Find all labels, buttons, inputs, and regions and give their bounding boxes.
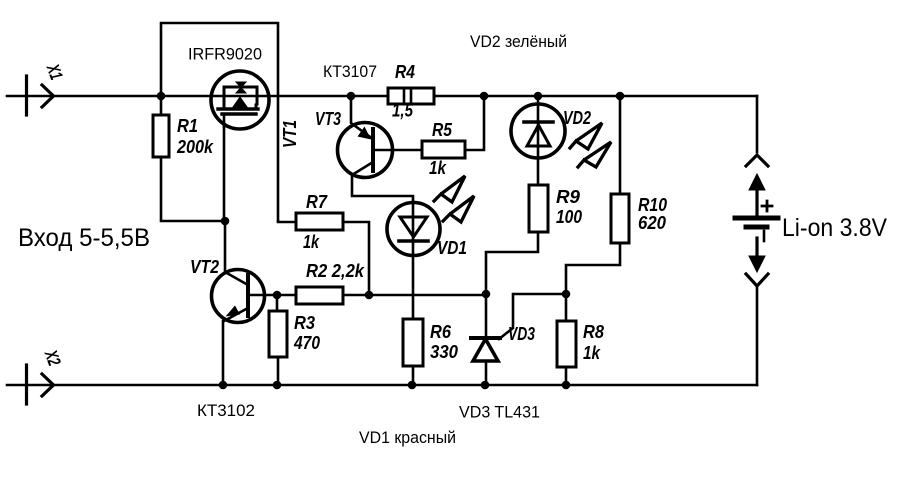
- wire gate down: [223, 127, 226, 221]
- junction R7/R2 node: [365, 291, 374, 300]
- junction VT2 emitter on bottom rail: [219, 381, 228, 390]
- junction R3 on bottom rail: [273, 381, 282, 390]
- svg-text:R9: R9: [556, 187, 580, 207]
- resistor R2: [277, 287, 369, 304]
- battery GB1 Li-on: [735, 155, 778, 286]
- svg-text:VD3 TL431: VD3 TL431: [459, 403, 540, 422]
- junction R6 on bottom rail: [408, 381, 417, 390]
- wire battery bottom rise: [756, 287, 759, 385]
- svg-text:Li-on 3.8V: Li-on 3.8V: [782, 214, 887, 242]
- svg-text:1k: 1k: [303, 232, 320, 252]
- LED VD2: [511, 96, 565, 185]
- svg-text:R10: R10: [638, 195, 667, 215]
- wire gate loop rectangle: [161, 23, 278, 221]
- resistor R1: [153, 96, 225, 221]
- resistor R3: [269, 295, 287, 385]
- transistor VT1 MOSFET IRFR9020: [211, 71, 269, 129]
- resistor R5: [422, 96, 484, 158]
- svg-text:VT2: VT2: [190, 257, 219, 277]
- svg-text:R4: R4: [395, 62, 415, 82]
- svg-text:100: 100: [556, 207, 582, 227]
- svg-text:X2: X2: [41, 347, 65, 369]
- svg-text:IRFR9020: IRFR9020: [188, 45, 262, 64]
- junction gate node R1/VT2 collector: [221, 217, 230, 226]
- svg-text:VD1: VD1: [437, 238, 467, 258]
- junction R5 tap on top rail: [480, 92, 489, 101]
- wire bottom rail: [7, 384, 757, 387]
- junction VD2 on top rail: [534, 92, 543, 101]
- svg-text:X1: X1: [43, 61, 67, 83]
- junction VD3 anode on bottom rail: [481, 381, 490, 390]
- svg-text:R2 2,2k: R2 2,2k: [306, 261, 365, 281]
- svg-text:КТ3102: КТ3102: [197, 401, 255, 420]
- svg-text:330: 330: [430, 342, 458, 362]
- svg-text:VD2: VD2: [563, 108, 591, 128]
- svg-text:VT3: VT3: [315, 109, 341, 129]
- resistor R10: [566, 96, 629, 294]
- connector X1: [27, 76, 54, 115]
- svg-text:VD3: VD3: [508, 324, 535, 344]
- svg-text:Вход 5-5,5В: Вход 5-5,5В: [18, 224, 150, 252]
- resistor R8: [557, 294, 576, 385]
- connector X2: [27, 365, 54, 404]
- LED VD1 arrows: [434, 176, 474, 222]
- svg-text:VT1: VT1: [280, 120, 300, 148]
- junction R10 on top rail: [616, 92, 625, 101]
- junction R8/R10/VD3 ref node: [562, 290, 571, 299]
- svg-text:R3: R3: [294, 313, 315, 333]
- resistor R7: [278, 213, 369, 295]
- wire battery top drop: [756, 96, 759, 152]
- junction R8 on bottom rail: [562, 381, 571, 390]
- junction VT3 emitter on top rail: [347, 92, 356, 101]
- junction R1/gate loop on top rail: [157, 92, 166, 101]
- resistor R9: [486, 185, 548, 294]
- svg-text:200k: 200k: [176, 137, 214, 157]
- svg-text:R1: R1: [177, 116, 198, 136]
- svg-text:VD2 зелёный: VD2 зелёный: [470, 32, 567, 51]
- wire top rail: [7, 95, 757, 98]
- svg-text:1k: 1k: [583, 343, 601, 363]
- wire feedback row: [369, 294, 486, 297]
- resistor R6: [403, 319, 423, 385]
- svg-text:1k: 1k: [429, 158, 447, 178]
- svg-text:КТ3107: КТ3107: [323, 62, 377, 81]
- junction R9/VD3 cathode node: [482, 290, 491, 299]
- resistor R4: [388, 88, 434, 104]
- transistor VT3 KT3107: [338, 96, 423, 201]
- battery plus sign: [762, 201, 772, 211]
- svg-text:470: 470: [293, 333, 320, 353]
- svg-text:VD1 красный: VD1 красный: [359, 428, 456, 447]
- svg-text:R8: R8: [583, 322, 604, 342]
- svg-text:1,5: 1,5: [392, 101, 414, 121]
- shunt regulator VD3 TL431: [471, 294, 566, 385]
- svg-text:620: 620: [638, 213, 666, 233]
- junction VT2 base R2/R3: [273, 291, 282, 300]
- transistor VT2 KT3102: [212, 221, 278, 385]
- svg-text:R6: R6: [430, 322, 452, 342]
- svg-text:R5: R5: [432, 120, 453, 140]
- LED VD1: [387, 201, 440, 319]
- LED VD2 arrows: [570, 123, 611, 167]
- svg-text:R7: R7: [306, 192, 328, 212]
